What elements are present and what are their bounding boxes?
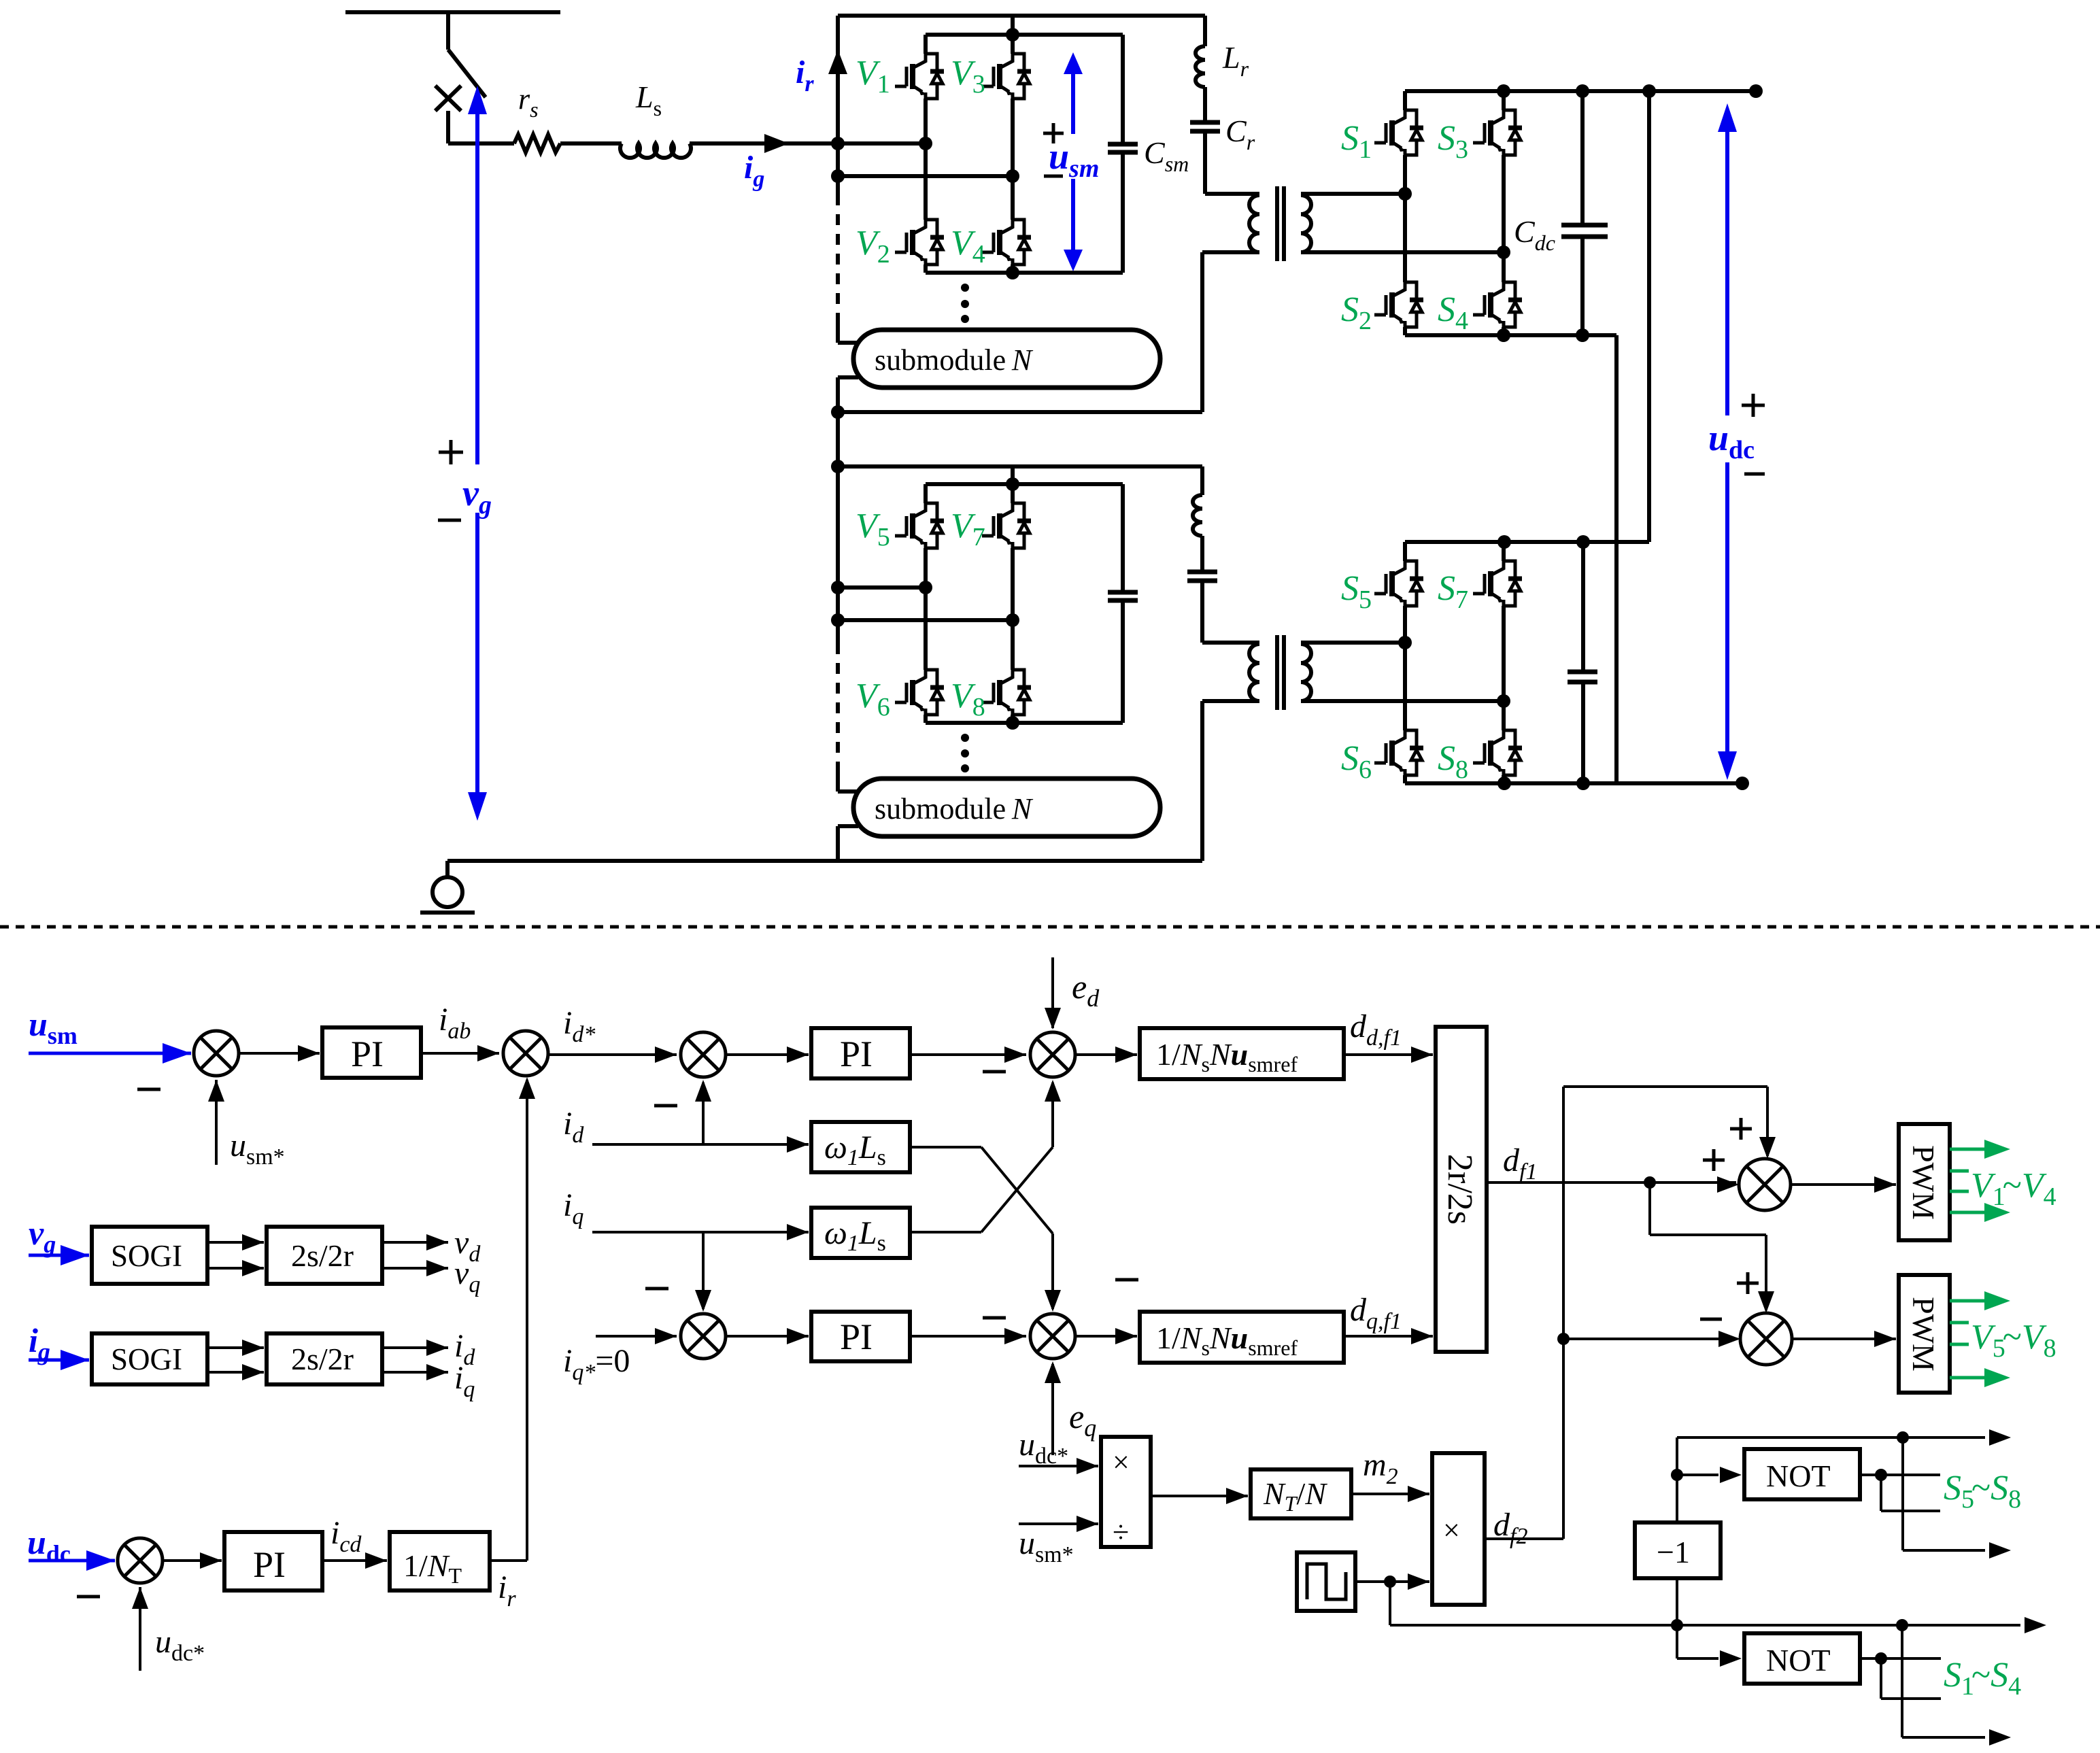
- arrow e_d: [1045, 957, 1061, 1029]
- wire V6 column: [924, 588, 928, 723]
- svg-text:PI: PI: [840, 1316, 873, 1357]
- node S rail bot1: [1497, 328, 1510, 342]
- arrow SJ5 to Nsm1: [1075, 1046, 1137, 1063]
- block divider: [1101, 1437, 1151, 1549]
- label C_sm: [1144, 135, 1189, 176]
- svg-text:×: ×: [1443, 1514, 1460, 1547]
- label SJA plus top: [1730, 1118, 1752, 1140]
- block 1/NsNusmref (1): [1140, 1028, 1344, 1079]
- wire rail stub (module1): [1011, 16, 1015, 35]
- wire V3 column: [1011, 35, 1015, 176]
- label v_g plus: [439, 440, 463, 464]
- label u_sm* div: [1019, 1525, 1074, 1567]
- arrows PWM1 gating: [1950, 1140, 2010, 1222]
- label u_dc: [1708, 418, 1755, 464]
- svg-text:submodule N: submodule N: [875, 343, 1034, 377]
- wire NOT2 tap2: [1881, 1658, 1941, 1699]
- node S2 rail bot2: [1576, 777, 1590, 790]
- wire NOT2 out: [1860, 1657, 1941, 1660]
- arrow u_sm input: [29, 1043, 191, 1063]
- block PI q: [811, 1312, 910, 1361]
- label S5~S8: [1944, 1469, 2021, 1514]
- label C_dc: [1514, 214, 1555, 255]
- node mid2b (module2): [1006, 613, 1019, 627]
- arrow SJ3 to PI d: [726, 1046, 809, 1063]
- node u_dc- terminal: [1735, 777, 1749, 790]
- node sq line -1: [1671, 1619, 1683, 1631]
- svg-text:PWM: PWM: [1906, 1297, 1941, 1372]
- wire i_r vertical: [836, 16, 840, 143]
- label u_sm plus: [1043, 123, 1064, 143]
- label u_sm minus: [1044, 175, 1063, 178]
- label V8: [951, 677, 985, 721]
- arrow SOGIi out1: [207, 1340, 264, 1356]
- arrow d_f2 to SJB: [1563, 1331, 1740, 1347]
- arrow e_q: [1045, 1361, 1061, 1455]
- summing junction SJ4: [681, 1314, 726, 1359]
- arrow NTN to mult: [1351, 1486, 1429, 1502]
- block 2s/2r i: [267, 1333, 382, 1384]
- node rail stub (module1): [1006, 28, 1019, 41]
- arrow SJA to PWM1: [1791, 1176, 1896, 1193]
- arrow v_d out: [382, 1234, 448, 1250]
- wire chain dashed 1: [836, 176, 840, 343]
- block 1/NT: [390, 1532, 490, 1590]
- transistor S2: [1374, 282, 1423, 327]
- label u_dc input: [27, 1523, 71, 1567]
- arrow SOGIv out1: [207, 1234, 264, 1250]
- summing junction SJB: [1740, 1313, 1792, 1365]
- block 2s/2r v: [267, 1227, 382, 1284]
- label S4: [1438, 290, 1468, 335]
- label i_g input: [29, 1321, 50, 1365]
- wire S6 column: [1403, 643, 1407, 783]
- wire inner top rail (module1): [926, 33, 1123, 37]
- wire mid2 to V3 leg: [838, 174, 1013, 178]
- node NOT1 out: [1875, 1469, 1887, 1481]
- capacitor C_sm branch: [1108, 35, 1138, 273]
- transistor V2: [895, 220, 944, 265]
- label i_q input: [563, 1187, 583, 1229]
- wire V7 column: [1011, 484, 1015, 620]
- wire parallel vertical: [1647, 91, 1651, 542]
- wire T2 secondary bottom: [1301, 699, 1504, 703]
- node S rail top2: [1576, 84, 1589, 98]
- block wL2: [811, 1208, 910, 1258]
- node mid1 (module2): [831, 581, 845, 594]
- block square wave: [1297, 1552, 1355, 1611]
- label S7: [1438, 569, 1468, 614]
- label V7: [951, 507, 985, 551]
- label SJB minus left: [1700, 1318, 1722, 1321]
- arrow i_r: [828, 50, 847, 74]
- arrow i_q to wL2: [787, 1224, 809, 1240]
- label i_cd: [331, 1515, 362, 1557]
- pill submodule N (2): [838, 779, 1160, 861]
- label i_ab: [439, 1002, 471, 1044]
- label S6: [1341, 739, 1372, 784]
- arrow SJ6 to Nsm2: [1075, 1328, 1137, 1344]
- breaker switch: [448, 12, 486, 97]
- block PI dc: [224, 1532, 322, 1590]
- block multiplier: [1432, 1453, 1485, 1605]
- transistor S6: [1374, 730, 1423, 775]
- summing junction SJ1: [194, 1031, 239, 1076]
- transistor V3: [982, 54, 1031, 99]
- arrow i_q* to SJ4: [596, 1328, 677, 1344]
- label u_sm input: [29, 1005, 78, 1049]
- block PI a: [322, 1027, 421, 1078]
- label SJA plus left: [1703, 1149, 1725, 1171]
- label S3: [1438, 119, 1468, 164]
- label u_sm*: [230, 1127, 285, 1170]
- arrow NOT1 in: [1677, 1467, 1742, 1483]
- svg-text:NOT: NOT: [1766, 1643, 1831, 1678]
- label u_dc plus: [1742, 394, 1765, 417]
- node chain3: [831, 405, 845, 419]
- label m_2: [1363, 1447, 1398, 1489]
- wire d_f2 out: [1485, 1537, 1563, 1540]
- svg-text:PI: PI: [253, 1544, 286, 1585]
- label u_dc minus: [1744, 473, 1765, 476]
- wire mid1 to V1 leg: [838, 141, 926, 146]
- dots vertical (2): [961, 734, 969, 772]
- wire module2 to L_r2: [1200, 466, 1204, 495]
- wire resistor to inductor: [560, 141, 622, 146]
- wire T2 secondary top: [1301, 641, 1405, 645]
- wire wL2 cross: [910, 1080, 1061, 1232]
- arrow i_d up to SJ3: [695, 1080, 711, 1144]
- label V4: [951, 224, 985, 269]
- wire L_r to C_r: [1203, 87, 1207, 122]
- wire V2 column: [924, 143, 928, 273]
- label SJ3 minus: [654, 1104, 677, 1108]
- wire S2 top rail: [1405, 540, 1649, 544]
- node NOT2 out: [1875, 1652, 1887, 1665]
- arrow Nsm1 to 2r2s: [1344, 1046, 1433, 1063]
- wire S top rail: [1405, 89, 1756, 93]
- wire chain n4-mid: [836, 466, 840, 588]
- wire inner top rail (module2): [926, 482, 1123, 486]
- node in1: [831, 137, 845, 150]
- summing junction SJ2: [503, 1031, 548, 1076]
- wire -1 up: [1677, 1437, 1877, 1522]
- arrow i_q down to SJ4: [695, 1232, 711, 1312]
- node NOT1 in: [1671, 1469, 1683, 1481]
- node u_dc+ terminal: [1749, 84, 1763, 98]
- label d_df1: [1350, 1008, 1402, 1051]
- wire S3 column: [1502, 91, 1506, 252]
- label submodule N (2): [875, 792, 1034, 826]
- summing junction SJA: [1739, 1159, 1791, 1210]
- label V1: [856, 54, 890, 99]
- label u_dc* under: [155, 1624, 205, 1666]
- wire sq out: [1355, 1580, 1429, 1583]
- wire V5 column: [924, 484, 928, 588]
- arrow u_sm: [1064, 52, 1083, 271]
- label v_q: [454, 1255, 480, 1297]
- node S rail top1: [1497, 84, 1510, 98]
- summing junction SJ5: [1030, 1032, 1075, 1077]
- wire sq line right: [1677, 1624, 1899, 1627]
- wire i_d input: [592, 1143, 793, 1146]
- transformer T1 secondary: [1301, 195, 1311, 252]
- arrow divider to NTN: [1151, 1488, 1248, 1504]
- wire L_r2 to C_r2: [1200, 536, 1204, 572]
- arrow u_dc input: [29, 1550, 115, 1571]
- label S1: [1341, 119, 1372, 164]
- wire V8 column: [1011, 620, 1015, 723]
- label SJ7 minus: [77, 1595, 100, 1599]
- label i_r fb: [498, 1569, 516, 1612]
- label S8: [1438, 739, 1468, 784]
- wire S14 bottom: [1902, 1625, 2011, 1746]
- wire NOT2 in: [1677, 1625, 1742, 1667]
- label SJ5 minus: [983, 1070, 1006, 1074]
- arrow S58 top line: [1877, 1429, 2011, 1446]
- capacitor C_sm2 branch: [1108, 484, 1138, 723]
- block PWM1: [1899, 1124, 1950, 1240]
- wire T1 primary return: [838, 252, 1259, 412]
- inductor L_s: [620, 143, 691, 158]
- wire S bottom rail: [1405, 333, 1616, 337]
- transistor S7: [1473, 561, 1522, 606]
- label V6: [856, 677, 890, 721]
- label SJ4 minus: [645, 1287, 668, 1291]
- node S12 mid: [1398, 187, 1412, 201]
- label d_f2: [1493, 1507, 1527, 1549]
- transistor V1: [895, 54, 944, 99]
- wire S4 column: [1502, 252, 1506, 335]
- arrow u_sm* input: [208, 1080, 224, 1165]
- arrows PWM2 gating: [1950, 1291, 2010, 1387]
- transistor S8: [1473, 730, 1522, 775]
- arrow u_dc* div: [1019, 1458, 1098, 1474]
- arrow u_sm* div: [1019, 1516, 1098, 1532]
- inductor L_r: [1196, 46, 1205, 87]
- node in2: [831, 169, 845, 183]
- node chain4: [831, 460, 845, 473]
- block NOT1: [1744, 1449, 1860, 1499]
- svg-text:PI: PI: [840, 1034, 873, 1074]
- transistor V6: [895, 670, 944, 715]
- capacitor C_r: [1190, 122, 1220, 131]
- transformer T2 secondary: [1301, 644, 1311, 701]
- arrow SOGIv out2: [207, 1260, 264, 1276]
- node sq line S14: [1896, 1619, 1908, 1631]
- wire -1 vertical: [1676, 1578, 1678, 1625]
- arrow SJ7 to PI dc: [163, 1552, 222, 1569]
- svg-text:2s/2r: 2s/2r: [291, 1342, 354, 1376]
- block 1/NsNusmref (2): [1140, 1312, 1344, 1363]
- label submodule N (1): [875, 343, 1034, 377]
- arrow v_g: [468, 86, 487, 821]
- svg-text:PI: PI: [351, 1034, 384, 1074]
- label i_d input: [563, 1106, 584, 1148]
- transistor V7: [982, 503, 1031, 548]
- node S rail top3: [1642, 84, 1656, 98]
- wire chain mid-mid2 (module2): [836, 588, 840, 620]
- label SJ6 top minus: [1115, 1278, 1138, 1282]
- arrow i_d out: [382, 1340, 448, 1356]
- wire S8 column: [1502, 701, 1506, 783]
- node S2 rail top2: [1576, 535, 1590, 549]
- wire V4 column: [1011, 176, 1015, 273]
- breaker X mark: [435, 86, 461, 111]
- arrow PI d to SJ5: [910, 1046, 1026, 1063]
- arrow i_d to wL1: [787, 1136, 809, 1153]
- svg-text:PWM: PWM: [1906, 1145, 1941, 1220]
- arrow Nsm2 to 2r2s: [1344, 1328, 1433, 1344]
- block PWM2: [1899, 1275, 1950, 1393]
- dots vertical (1): [961, 284, 969, 323]
- wire module2 rail stub: [1011, 466, 1015, 484]
- label r_s: [518, 82, 539, 122]
- capacitor C_dc: [1561, 91, 1608, 335]
- label e_q: [1069, 1397, 1096, 1442]
- label L_r: [1222, 40, 1249, 81]
- wire i_r feedback: [490, 1077, 535, 1561]
- arrow sq line end: [1902, 1617, 2046, 1633]
- label SJ6 left minus: [983, 1316, 1006, 1320]
- arrow v_q out: [382, 1260, 448, 1276]
- node S58 top: [1897, 1431, 1909, 1444]
- label u_dc* div: [1019, 1427, 1068, 1469]
- label v_g minus: [438, 519, 461, 522]
- resistor r_s: [514, 135, 560, 152]
- arrow SJ4 to PI q: [726, 1328, 809, 1344]
- node S78 mid: [1497, 694, 1510, 708]
- arrow SOGIi out2: [207, 1364, 264, 1380]
- arrow sq to mult: [1408, 1573, 1429, 1590]
- arrow i_g: [764, 134, 789, 153]
- wire inductor to node: [690, 141, 838, 146]
- arrow SJB to PWM2: [1792, 1331, 1896, 1347]
- label V3: [951, 54, 985, 99]
- label SJB plus top: [1737, 1272, 1759, 1294]
- node S56 mid: [1398, 636, 1412, 649]
- wire S5 column: [1403, 542, 1407, 643]
- wire S1 column: [1403, 91, 1407, 194]
- node d_f1: [1644, 1176, 1656, 1189]
- wire series vertical: [1614, 335, 1619, 783]
- label SJ1 minus: [137, 1088, 160, 1091]
- wire chain n3-n4: [836, 412, 840, 466]
- wire C_r to transformer1: [1205, 131, 1259, 194]
- svg-text:SOGI: SOGI: [111, 1342, 182, 1376]
- svg-text:×: ×: [1113, 1446, 1130, 1479]
- node mid2 (module2): [831, 613, 845, 627]
- wire mid1 wire (module2): [838, 585, 926, 590]
- capacitor C_r2: [1187, 572, 1217, 581]
- label S1~S4: [1944, 1656, 2021, 1701]
- transistor S5: [1374, 561, 1423, 606]
- wire V1 column: [924, 35, 928, 143]
- summing junction SJ6: [1030, 1314, 1075, 1359]
- wire d_f2 vertical: [1563, 1087, 1776, 1539]
- svg-text:÷: ÷: [1113, 1516, 1129, 1549]
- transformer T2 core: [1277, 635, 1284, 710]
- svg-text:2s/2r: 2s/2r: [291, 1238, 354, 1273]
- label v_g: [462, 473, 492, 520]
- arrow d_f1 to SJA: [1717, 1176, 1739, 1193]
- transistor V8: [982, 670, 1031, 715]
- transformer T1 core: [1277, 186, 1284, 261]
- label v_d: [454, 1225, 481, 1267]
- wire module2 top rail: [838, 464, 1202, 469]
- wire sq down: [1390, 1582, 1674, 1625]
- arrow v_g input: [29, 1245, 89, 1265]
- node S2 rail top1: [1497, 535, 1511, 549]
- arrow SJ1 to PI: [239, 1045, 320, 1061]
- node mid1: [919, 137, 932, 150]
- label V1~V4: [1971, 1166, 2056, 1211]
- wire mid2 wire (module2): [838, 618, 1013, 622]
- wire S58 bottom: [1903, 1437, 2011, 1559]
- wire S2 bottom rail: [1405, 781, 1742, 785]
- wire S2 column: [1403, 194, 1407, 335]
- node S rail bot2: [1576, 328, 1589, 342]
- block SOGI i: [92, 1333, 207, 1384]
- wire chain n1-n2: [836, 143, 840, 176]
- label u_sm: [1049, 136, 1099, 183]
- label S2: [1341, 290, 1372, 335]
- label V5~V8: [1971, 1318, 2056, 1363]
- wire S7 column: [1502, 542, 1506, 701]
- svg-text:submodule N: submodule N: [875, 792, 1034, 826]
- arrow SJ2 to SJ3: [548, 1046, 677, 1063]
- wire chain dashed 2: [836, 620, 840, 792]
- block NT/N: [1251, 1469, 1351, 1518]
- transistor V5: [895, 503, 944, 548]
- transistor S1: [1374, 110, 1423, 155]
- label i_d out: [454, 1328, 475, 1370]
- node bottom rail (module2): [1006, 716, 1019, 730]
- block 2r/2s: [1436, 1027, 1487, 1352]
- wire T2 primary return: [1202, 701, 1259, 861]
- wire outer top rail (module1): [838, 14, 1205, 18]
- arrow i_g input: [29, 1350, 89, 1370]
- terminal circle: [420, 861, 475, 913]
- label S5: [1341, 569, 1372, 614]
- node rail stub (module2): [1006, 477, 1019, 491]
- svg-text:−1: −1: [1657, 1535, 1690, 1569]
- node S2 rail bot1: [1497, 777, 1511, 790]
- label d_qf1: [1350, 1292, 1402, 1334]
- wire C_r2 to transformer2: [1202, 581, 1259, 643]
- wire d_f1 to SJB: [1650, 1182, 1774, 1313]
- wire inner bottom rail (module1): [926, 271, 1123, 275]
- dashed separator: [0, 925, 2100, 929]
- arrow PI to SJ2: [421, 1045, 499, 1061]
- arrow i_q out: [382, 1364, 448, 1380]
- label i_q*=0: [563, 1343, 630, 1385]
- wire NOT1 out: [1860, 1474, 1940, 1476]
- node mid1b (module2): [919, 581, 932, 594]
- svg-text:NOT: NOT: [1766, 1459, 1831, 1493]
- label L_s: [635, 80, 662, 120]
- arrow PI q to SJ6: [910, 1328, 1026, 1344]
- label V5: [856, 507, 890, 551]
- wire T1 secondary top: [1301, 192, 1405, 196]
- label d_f1: [1503, 1142, 1537, 1185]
- svg-text:2r/2s: 2r/2s: [1440, 1154, 1479, 1225]
- svg-text:SOGI: SOGI: [111, 1239, 182, 1273]
- arrow u_dc: [1718, 103, 1737, 780]
- wire T1 secondary bottom: [1301, 250, 1504, 254]
- label i_q out: [454, 1360, 475, 1402]
- label i_d*: [563, 1005, 595, 1047]
